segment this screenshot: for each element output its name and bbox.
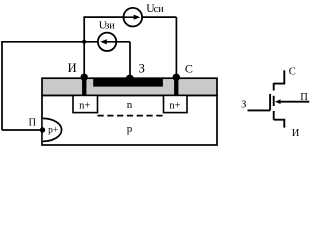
symbol: channel dash bottom (273, 111, 275, 120)
symbol: channel dash middle (273, 96, 275, 106)
svg-text:З: З (241, 99, 246, 110)
symbol: channel dash top (273, 83, 275, 91)
svg-text:П: П (29, 118, 37, 129)
source metal contact (И) (82, 75, 86, 96)
wire: Uси horizontal run (84, 16, 176, 18)
n+ region right (164, 95, 188, 112)
wire: Uзи horizontal run (1, 41, 130, 43)
svg-text:И: И (68, 61, 77, 75)
svg-text:С: С (185, 61, 193, 75)
wire: drain vertical (С) (175, 17, 177, 74)
n+ region left (73, 95, 98, 112)
voltage source Uси (circle with right arrow) (124, 8, 143, 27)
junction dot П contact (40, 127, 45, 132)
svg-text:n: n (127, 99, 133, 111)
junction dot on С contact (173, 74, 180, 81)
svg-text:П: П (300, 92, 308, 103)
svg-text:зи: зи (105, 21, 115, 32)
drain metal contact (С) (174, 75, 178, 96)
svg-text:С: С (289, 66, 296, 77)
p substrate body (42, 95, 217, 145)
wire: substrate horizontal to П contact (2, 129, 43, 131)
svg-text:си: си (154, 4, 165, 15)
svg-text:З: З (139, 62, 145, 76)
junction dot on gate (126, 75, 134, 83)
voltage source Uзи (circle with left arrow) (98, 33, 116, 51)
symbol: gate electrode bar (269, 94, 271, 110)
wire: source vertical (И) (83, 16, 85, 75)
wire: left vertical (substrate return) (1, 42, 3, 130)
channel lower boundary (dashed) (98, 115, 164, 117)
symbol: gate lead (248, 109, 271, 111)
label Uзи (99, 20, 115, 32)
junction node (И - Uзи tap) (82, 40, 86, 44)
symbol: substrate lead with arrow (275, 99, 309, 104)
symbol: drain lead (274, 70, 285, 83)
svg-text:n+: n+ (169, 100, 180, 111)
label Uси (146, 3, 164, 15)
wire: gate vertical (З) (129, 42, 131, 77)
svg-text:p: p (127, 123, 133, 135)
gate metal electrode (black bar) (93, 79, 163, 87)
symbol: source lead (274, 120, 285, 128)
junction dot on И contact (81, 74, 88, 81)
svg-text:И: И (292, 128, 300, 139)
svg-text:p+: p+ (48, 125, 58, 135)
p+ region (half ellipse at left edge) (43, 118, 62, 141)
svg-text:n+: n+ (79, 100, 90, 111)
oxide layer (SiO2, gray) (42, 78, 217, 95)
